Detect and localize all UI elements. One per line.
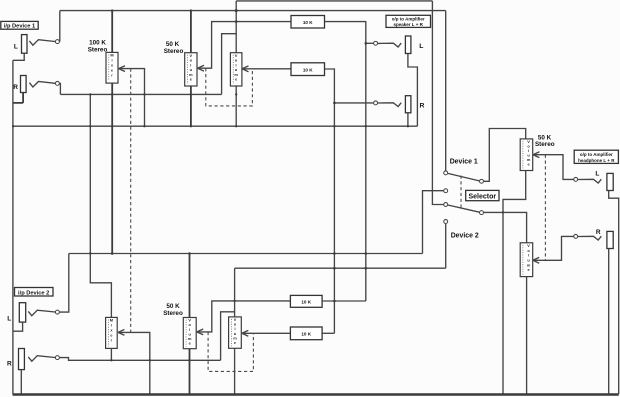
svg-text:Selector: Selector [468, 193, 496, 200]
switch blade 2 [448, 205, 480, 212]
resistor R3 10K [290, 295, 322, 307]
svg-text:L: L [419, 43, 423, 50]
wiper arrow 50KB2 [242, 330, 248, 336]
wire 100K gang1 feed [111, 11, 113, 53]
svg-text:o/p to Amplifier: o/p to Amplifier [580, 152, 613, 157]
svg-text:Device 1: Device 1 [450, 159, 478, 166]
svg-text:Stereo: Stereo [88, 46, 108, 53]
wire R1 bus [60, 93, 221, 95]
wiper arrow 100K [119, 66, 125, 72]
wire 100K gang2 bottom [110, 348, 112, 360]
plug L2 [28, 310, 55, 316]
wire R3 out [322, 300, 366, 302]
pot G2 headphone R [520, 243, 533, 277]
svg-text:L: L [7, 316, 11, 323]
wiper arrow G1 [533, 152, 539, 158]
svg-text:o/p to Amplifier: o/p to Amplifier [392, 17, 425, 22]
jack speaker R [405, 96, 411, 113]
wire ground rail [13, 125, 418, 127]
pot 100K gang1 [106, 52, 118, 83]
wire speaker R sleeve [407, 113, 409, 126]
dashed switch link [460, 176, 462, 209]
wire rail B (L1 bus top) [60, 10, 446, 12]
wire L-mix bus [325, 22, 366, 301]
label box o/p headphone [574, 150, 618, 163]
svg-text:10 K: 10 K [301, 332, 311, 337]
wire R speaker tap [334, 102, 373, 104]
box Selector [466, 190, 499, 200]
svg-text:Device 2: Device 2 [451, 233, 479, 240]
wire 50K gang2 wiper [242, 68, 291, 70]
wire R1 sleeve [13, 93, 23, 103]
plug headphone L [578, 179, 601, 183]
jack speaker L [405, 36, 411, 54]
pot track dots [108, 55, 523, 347]
resistor R1 10K [291, 16, 325, 29]
label box o/p speaker [386, 15, 431, 27]
wire 50KB2 bottom [234, 348, 236, 394]
pot 50K bottom gang1 [183, 318, 196, 349]
dashed gang link 50K bottom [208, 332, 253, 372]
wire headphone R sleeve [608, 249, 610, 395]
wire 50K gang1 wiper [198, 22, 291, 69]
wire 50KB1 feed [189, 254, 191, 318]
wire rail Dev2-L (A) [69, 253, 423, 255]
pot 100K gang2 [106, 317, 118, 348]
node C5 [480, 211, 484, 215]
wire G2 bottom [526, 277, 528, 395]
node R speaker circle [374, 101, 378, 105]
wire 50KB1 bottom [189, 349, 191, 395]
node C1 [444, 171, 448, 175]
wire speaker L sleeve [408, 54, 418, 127]
resistor R4 10K [290, 327, 322, 340]
svg-text:Stereo: Stereo [164, 48, 184, 55]
junction dots [235, 9, 238, 12]
svg-text:10 K: 10 K [303, 20, 313, 25]
wire 100K gang2 feed [90, 94, 111, 317]
node C3 [444, 189, 448, 193]
dashed gang link headphone [544, 155, 546, 261]
svg-text:50 K: 50 K [166, 41, 180, 48]
wire R2 bus [60, 358, 221, 361]
dashed gang link 100K [130, 69, 132, 333]
wire L2 riser to rail A [60, 254, 69, 313]
wire L2 sleeve [13, 322, 23, 331]
wire G1 wiper [533, 155, 574, 180]
node C6 [444, 220, 448, 224]
wiper arrow 50K gang1 [198, 65, 204, 71]
plug L1 [29, 40, 55, 46]
svg-text:Stereo: Stereo [535, 141, 555, 148]
node L speaker circle [374, 41, 378, 45]
svg-text:50 K: 50 K [166, 303, 180, 310]
wire C1 feed [445, 11, 447, 171]
wire 50K gang2 bottom [235, 86, 237, 126]
svg-text:10 K: 10 K [301, 300, 311, 305]
box i/p Device 2 [15, 288, 54, 297]
wire L1 riser [59, 11, 61, 42]
wire R2 riser [221, 312, 235, 361]
jack headphone R [607, 231, 613, 248]
plug speaker R [378, 103, 401, 107]
wire R1 feed to pot P2 and rail A-top [235, 1, 237, 53]
wire 100K gang1 bottom [111, 83, 113, 253]
wire 50KB2 wiper [242, 332, 291, 334]
svg-text:i/p Device 2: i/p Device 2 [18, 290, 49, 296]
plug headphone R [578, 236, 601, 240]
svg-text:L: L [595, 171, 599, 178]
wire L speaker tap [366, 42, 374, 44]
svg-text:headphone L + R: headphone L + R [578, 158, 615, 163]
svg-text:R: R [13, 84, 18, 91]
wire G1 bottom [503, 171, 526, 395]
switch blade 1 [448, 173, 480, 181]
node R1 tip circle [55, 81, 59, 85]
jack R2 [19, 349, 25, 370]
wire 50K gang1 bottom [190, 86, 192, 126]
wire headphone L sleeve [609, 191, 619, 395]
wire R1 jog [59, 83, 62, 94]
pot 50K bottom gang2 [229, 317, 242, 348]
node L2 circle [55, 310, 59, 314]
svg-text:R: R [7, 361, 12, 368]
wire bottom rail [13, 393, 619, 396]
plug speaker L [378, 43, 401, 47]
wire L1 sleeve [13, 53, 24, 60]
pot 50K gang2 top [230, 53, 242, 86]
pot G1 headphone L [520, 139, 533, 171]
wire R1 riser [222, 34, 237, 95]
svg-text:i/p Device 1: i/p Device 1 [4, 24, 35, 30]
box i/p Device 1 [1, 21, 38, 29]
jack L2 [19, 303, 25, 322]
node C2 [480, 179, 484, 183]
svg-text:10 K: 10 K [303, 68, 313, 73]
jack R1 [21, 76, 27, 93]
jack headphone L [607, 173, 613, 190]
pot 50K gang1 top [185, 53, 197, 86]
wire 100K gang2 wiper [118, 332, 150, 394]
wire 100K wiper [119, 69, 145, 127]
wire 50KB1 wiper [197, 301, 291, 332]
wire C4 feed [432, 1, 443, 205]
wire R-mix bus [325, 69, 335, 333]
dashed gang link 50K top [206, 68, 253, 106]
wire R2 sleeve [20, 370, 22, 395]
svg-text:speaker L + R: speaker L + R [394, 22, 424, 27]
svg-text:Stereo: Stereo [163, 310, 183, 317]
wire Dev2R feed drop [234, 268, 236, 317]
wire rail A-top (R1 bus top) [236, 0, 432, 2]
wire C2 to G1 feed [484, 129, 526, 182]
jack L1 [22, 35, 28, 54]
svg-text:100 K: 100 K [89, 39, 106, 46]
node L headphone circle [574, 177, 578, 181]
svg-text:R: R [420, 103, 425, 110]
plug R1 [29, 82, 55, 88]
wire C5 to G2 feed [484, 212, 527, 242]
wire G2 wiper [533, 236, 574, 260]
wire C3 to rail A [423, 191, 444, 254]
wire 50K gang1 feed [190, 11, 192, 53]
resistor R2 10K [291, 63, 325, 76]
wire left bus [12, 60, 14, 394]
node L1 tip circle [55, 40, 59, 44]
svg-text:R: R [596, 229, 601, 236]
wiper arrow 50K gang2 [242, 66, 248, 72]
node C4 [444, 203, 448, 207]
wire rail Dev2-R (B) [235, 267, 446, 269]
wire C6 drop [445, 224, 447, 269]
wiper arrow G2 [533, 257, 539, 263]
node R headphone circle [574, 234, 578, 238]
plug R2 [28, 356, 55, 362]
wiper arrow 100K gang2 [118, 330, 124, 336]
wiper arrow 50KB1 [197, 329, 203, 335]
node R2 circle [55, 356, 59, 360]
svg-text:L: L [14, 43, 18, 50]
wire R4 out [322, 332, 334, 334]
